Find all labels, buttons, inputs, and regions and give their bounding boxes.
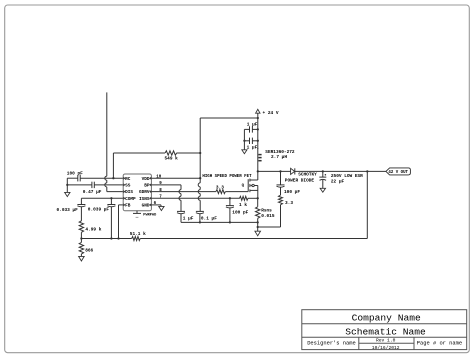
svg-text:0.039 µF: 0.039 µF [88, 207, 110, 213]
wire input rail upper [257, 118, 259, 149]
capacitor 100 pF snubber [277, 184, 285, 186]
ground left [65, 192, 70, 196]
wire snubber top [280, 171, 282, 185]
wire BP pin line [151, 184, 181, 186]
op-amp U1 TPS40210 controller [123, 174, 151, 211]
hop BP over ISNS [179, 196, 181, 200]
svg-text:Rev 1.0: Rev 1.0 [376, 337, 396, 343]
wire 100pF to rail [229, 208, 231, 223]
node snubber junction [279, 170, 281, 172]
wire 0.1uF to rail [199, 214, 201, 223]
capacitor 0.033 uF [77, 204, 85, 206]
node FB rail left [80, 237, 82, 239]
svg-text:42 V OUT: 42 V OUT [388, 171, 408, 175]
node cap1 junction [257, 128, 259, 130]
svg-text:GND: GND [142, 204, 150, 209]
wire 0.039 drop [110, 198, 112, 204]
resistor 4.99 k [79, 221, 83, 233]
node FB/rail junction [117, 237, 119, 239]
hop DIS riser over RC [105, 176, 107, 180]
wire ISNS seg2 [248, 197, 258, 199]
hop VDD over BP [198, 183, 200, 187]
capacitor 0.47 uF (SS) [91, 182, 93, 188]
node 0.039/rail junction [110, 237, 112, 239]
resistor R 549k [165, 151, 177, 155]
svg-text:10/16/2012: 10/16/2012 [372, 345, 400, 351]
capacitor 22 uF out [319, 176, 326, 178]
inductor L1 SER1360-272 [257, 148, 259, 171]
node 22uF junction [322, 170, 324, 172]
wire Rsns stubs [257, 198, 259, 206]
node Rsns/caprail junction [257, 221, 259, 223]
ground IC [159, 206, 164, 210]
node source/Rsns junction [257, 197, 259, 199]
wire COMP drop [80, 198, 82, 204]
svg-text:3.3: 3.3 [285, 200, 293, 206]
node VDD pin junction [199, 177, 201, 179]
svg-text:SS: SS [125, 184, 131, 189]
svg-text:PWRPAD: PWRPAD [143, 213, 157, 217]
svg-text:866: 866 [85, 247, 93, 253]
svg-text:GDRV: GDRV [139, 190, 150, 195]
svg-text:51.1 k: 51.1 k [130, 231, 146, 237]
wire GND pin stub [151, 204, 161, 206]
wire GDRV pin line [151, 191, 216, 193]
svg-text:Designer's name: Designer's name [307, 340, 356, 346]
title block box [302, 310, 467, 350]
node RC junction [112, 177, 114, 179]
capacitor 0.039 uF [107, 204, 115, 206]
wire 4.99k to rail [80, 232, 82, 238]
svg-text:3.3: 3.3 [216, 184, 224, 190]
svg-text:Page # or name: Page # or name [417, 340, 462, 346]
capacitor 1 uF (BP) [177, 210, 185, 212]
svg-text:1 µF: 1 µF [247, 144, 258, 150]
wire 549k line [113, 152, 165, 154]
wire VDD riser [199, 118, 201, 153]
node left gnd node [66, 184, 68, 186]
wire FB rail [81, 238, 131, 240]
capacitor 100 pF (ISNS) [226, 205, 234, 207]
ground input caps [242, 150, 247, 154]
svg-text:100 pF: 100 pF [284, 189, 300, 195]
svg-text:10: 10 [156, 175, 162, 179]
wire 1uF to rail [180, 214, 182, 223]
hop VDD over GDRV [198, 190, 200, 194]
capacitor 1 uF in A [249, 126, 251, 132]
pwrpad stub [136, 211, 138, 214]
wire FB pin line [119, 204, 124, 206]
resistor Rsns 0.015 [256, 207, 260, 219]
transistor Q1 power FET [247, 179, 249, 191]
node Rsns/snubrail junction [257, 226, 259, 228]
wire 22uF gnd stub [322, 180, 324, 188]
wire left node drop [66, 178, 68, 185]
svg-text:DIS: DIS [125, 190, 133, 195]
node drain junction [257, 170, 259, 172]
svg-text:100 pF: 100 pF [67, 171, 83, 177]
wire input cap left leg [243, 129, 245, 149]
wire 22uF stub [322, 171, 324, 177]
svg-text:BP: BP [144, 184, 150, 189]
flag 42 V OUT [386, 168, 411, 175]
svg-text:2.7 µH: 2.7 µH [271, 154, 287, 160]
wire 549k drop to RC [112, 153, 114, 178]
capacitor 1 uF in B [249, 138, 251, 144]
wire snubber return [258, 226, 281, 228]
wire VDD riser lower [199, 178, 201, 183]
svg-text:1 µF: 1 µF [183, 215, 194, 221]
svg-text:COMP: COMP [125, 197, 136, 202]
wire diode to output [295, 170, 386, 172]
node VDD/549k junction [199, 152, 201, 154]
resistor 866 [79, 242, 83, 254]
svg-text:RC: RC [125, 177, 131, 182]
svg-text:0.1 µF: 0.1 µF [201, 215, 217, 221]
svg-text:SCHOTKY: SCHOTKY [298, 171, 317, 177]
resistor 3.3 snubber [279, 195, 283, 204]
wire COMP pin line [81, 197, 123, 199]
svg-text:+ 24 V: + 24 V [263, 110, 279, 116]
wire DIS pin line [107, 191, 123, 193]
node input cap left T [243, 140, 245, 142]
diode D1 schottky [291, 168, 295, 174]
wire VDD pin line [151, 177, 200, 179]
svg-text:Rsns: Rsns [261, 208, 272, 214]
svg-text:549 k: 549 k [165, 156, 179, 162]
capacitor 0.1 uF [196, 210, 204, 212]
wire RC pin line [67, 177, 78, 179]
wire left gnd stub [66, 185, 68, 193]
svg-text:SER1360-272: SER1360-272 [265, 149, 295, 155]
ground 22uF [320, 188, 325, 192]
wire cap2 stub [244, 140, 249, 142]
wire DIS riser [106, 92, 108, 176]
wire 866 stubs [80, 239, 82, 243]
node output junction [366, 170, 368, 172]
svg-text:VDD: VDD [142, 177, 150, 182]
wire cap1 stub [244, 128, 249, 130]
node VDD branch junction [257, 117, 259, 119]
hop DIS riser over SS [105, 183, 107, 187]
wire FB riser [118, 205, 120, 239]
wire +24V rail to VDD branch [200, 117, 258, 119]
svg-text:POWER DIODE: POWER DIODE [285, 177, 315, 183]
svg-text:250V LOW ESR: 250V LOW ESR [331, 173, 363, 179]
svg-text:FB: FB [125, 204, 131, 209]
wire drain line [258, 170, 291, 172]
resistor 3.3 gate [216, 190, 225, 194]
svg-text:0.033 µF: 0.033 µF [57, 207, 79, 213]
node 0.1uF rail junction [199, 221, 201, 223]
supply +24 V arrow [256, 109, 260, 113]
ground power [255, 231, 261, 236]
svg-text:HIGH SPEED POWER FET: HIGH SPEED POWER FET [202, 175, 252, 179]
svg-text:1 µF: 1 µF [247, 122, 258, 128]
wire ISNS pin line [151, 197, 239, 199]
wire 100pF drop [229, 198, 231, 205]
ground 866 [79, 256, 85, 261]
svg-text:4.99 k: 4.99 k [85, 227, 101, 233]
node COMP/0.039 junction [110, 197, 112, 199]
capacitor 100 pF (RC) [77, 175, 79, 181]
hop VDD over ISNS [198, 196, 200, 200]
wire 0.033 to 4.99k [80, 207, 82, 221]
wire output riser [366, 171, 368, 238]
svg-text:100 pF: 100 pF [232, 210, 248, 216]
svg-text:Company Name: Company Name [352, 312, 421, 323]
svg-text:0.47 µF: 0.47 µF [83, 189, 102, 195]
svg-text:22 µF: 22 µF [331, 179, 345, 185]
node ISNS/100pF junction [229, 197, 231, 199]
wire SS pin line [67, 184, 92, 186]
node 100pF rail junction [229, 221, 231, 223]
node cap2 junction [257, 140, 259, 142]
wire BP riser [180, 185, 182, 190]
wire 0.039 to rail [110, 207, 112, 239]
wire snubber mid [280, 187, 282, 195]
hop BP over GDRV [179, 190, 181, 194]
resistor 51.1 k [132, 237, 141, 241]
svg-text:0.015: 0.015 [261, 213, 275, 219]
svg-text:1 k: 1 k [239, 202, 247, 208]
svg-text:Schematic Name: Schematic Name [345, 326, 426, 337]
svg-text:ISNS: ISNS [139, 197, 150, 202]
resistor 1 k [240, 196, 249, 200]
wire cap return rail [181, 221, 258, 223]
